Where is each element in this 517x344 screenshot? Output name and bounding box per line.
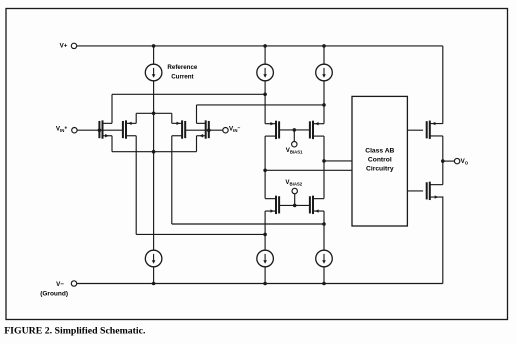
node VIN- gate junction	[207, 128, 211, 132]
current source I3	[316, 64, 333, 81]
wire Q1 source down	[111, 136, 113, 152]
wire box to output NMOS gate	[407, 190, 423, 192]
wire col3 to I6	[323, 224, 325, 250]
node VBIAS1 gate junction	[293, 128, 297, 132]
wire VIN- to gates	[185, 129, 223, 131]
svg-text:V−: V−	[56, 281, 64, 288]
label Reference Current	[167, 64, 197, 80]
svg-text:(Ground): (Ground)	[40, 290, 68, 297]
wire C outer-left drain to col2	[112, 93, 265, 95]
current source I6	[316, 250, 333, 267]
transistor Q9 output PMOS	[427, 121, 443, 139]
wire Q7 source down	[264, 211, 266, 234]
wire E to Class AB box	[324, 160, 352, 162]
wire I2 down	[264, 81, 266, 95]
node junction bottom rail col1	[152, 282, 156, 286]
current source I1 reference	[145, 64, 162, 81]
svg-text:V+: V+	[60, 43, 68, 50]
transistor Q4 outer-right input PMOS	[197, 120, 209, 138]
node output junction	[441, 159, 445, 163]
wire col1 down to I4	[153, 152, 155, 251]
wire VBIAS1 stub	[293, 130, 295, 142]
wire rail to I3	[323, 46, 325, 64]
current source I2	[257, 64, 274, 81]
label VBIAS2	[285, 179, 302, 187]
wire Q9 drain down	[442, 136, 444, 161]
wire VBIAS2 gates	[279, 204, 310, 206]
wire rail to I2	[264, 46, 266, 64]
wire D outer-right drain to col3	[197, 104, 325, 106]
transistor Q2 inner-left input PMOS	[123, 120, 136, 138]
wire V- bottom rail	[77, 283, 443, 285]
wire box to output PMOS gate	[407, 129, 423, 131]
wire Q4 drain up	[196, 105, 198, 123]
wire B inner-left drain to col2	[136, 233, 265, 235]
node junction top rail col3	[322, 44, 326, 48]
svg-text:Circuitry: Circuitry	[366, 166, 394, 173]
node junction top rail col1	[152, 44, 156, 48]
wire I5 to rail	[264, 267, 266, 284]
node junction bottom rail col2	[263, 282, 267, 286]
wire Q3 drain down long	[171, 136, 173, 224]
wire tail down	[153, 113, 155, 151]
node VBIAS2 gate junction	[293, 204, 297, 208]
current source I5	[257, 250, 274, 267]
wire outer pair bottom	[112, 151, 197, 153]
svg-text:Class AB: Class AB	[365, 147, 394, 154]
wire Q1 drain up	[111, 94, 113, 123]
node junction top rail col2	[263, 44, 267, 48]
terminal V-	[71, 281, 76, 286]
wire V+ rail down to output PMOS drain	[442, 46, 444, 124]
node junction col3 lower	[322, 222, 326, 226]
current source I4	[145, 250, 162, 267]
terminal VIN-	[223, 128, 228, 133]
wire Q6 source down	[323, 136, 325, 161]
terminal VBIAS2	[292, 188, 297, 193]
node junction col2 upper	[263, 93, 267, 97]
wire I1 to tail node	[153, 81, 155, 114]
svg-text:Control: Control	[368, 157, 392, 164]
label VO	[461, 158, 469, 166]
wire I6 to rail	[323, 267, 325, 284]
terminal VO	[454, 158, 459, 163]
wire Q2 source up	[135, 113, 137, 123]
wire Q5 drain up	[264, 94, 266, 123]
transistor Q3 inner-right input PMOS	[172, 120, 185, 138]
wire V+ top rail	[77, 45, 443, 47]
wire to VO terminal	[443, 160, 455, 162]
transistor Q7 VBIAS2 left	[265, 196, 279, 214]
label V+	[60, 43, 68, 50]
node junction bottom rail col3	[322, 282, 326, 286]
wire F to Class AB box	[265, 169, 352, 171]
wire col2 to I5	[264, 234, 266, 250]
terminal VIN+	[72, 128, 77, 133]
wire VIN+ to gates	[77, 129, 123, 131]
wire output NMOS source down	[442, 196, 444, 283]
wire Q10 drain up	[442, 161, 444, 185]
wire col3 mid down	[323, 161, 325, 199]
terminal VBIAS1	[292, 142, 297, 147]
wire I4 to rail	[153, 267, 155, 284]
node junction col3 upper	[322, 103, 326, 107]
wire A inner-right drain to col3	[172, 223, 324, 225]
wire rail to I1	[153, 46, 155, 64]
label VIN-	[229, 125, 240, 133]
wire Q3 source up	[171, 113, 173, 123]
label VBIAS1	[286, 147, 303, 155]
wire Q5 source down	[264, 136, 266, 170]
wire Q8 source down	[323, 211, 325, 224]
node tail junction	[152, 112, 156, 116]
wire Q4 source down	[196, 136, 198, 152]
transistor Q5 VBIAS1 left	[265, 121, 279, 139]
wire Q6 drain up	[323, 105, 325, 124]
wire col2 mid down	[264, 170, 266, 198]
svg-text:Current: Current	[171, 73, 193, 80]
block Class AB Control Circuitry	[352, 96, 407, 226]
terminal V+	[71, 43, 76, 48]
wire I3 down	[323, 81, 325, 105]
transistor Q8 VBIAS2 right	[310, 196, 324, 214]
label V-	[56, 281, 64, 288]
label Ground	[40, 290, 68, 297]
wire Q2 drain down long	[135, 136, 137, 235]
wire VBIAS2 stub	[294, 194, 296, 206]
node junction col2 lower	[263, 233, 267, 237]
label VIN+	[56, 125, 67, 133]
wire VBIAS1 gates	[279, 129, 310, 131]
node bottom wire junction	[152, 150, 156, 154]
transistor Q6 VBIAS1 right	[310, 121, 324, 139]
node junction col2 mid	[263, 169, 267, 173]
node VIN+ gate junction	[98, 128, 102, 132]
transistor Q1 outer-left input PMOS	[99, 120, 112, 138]
svg-text:Reference: Reference	[167, 64, 197, 71]
node junction col3 mid	[322, 159, 326, 163]
svg-text:FIGURE 2. Simplified Schematic: FIGURE 2. Simplified Schematic.	[4, 326, 146, 337]
transistor Q10 output NMOS	[427, 182, 443, 200]
wire inner pair tail	[136, 112, 172, 114]
